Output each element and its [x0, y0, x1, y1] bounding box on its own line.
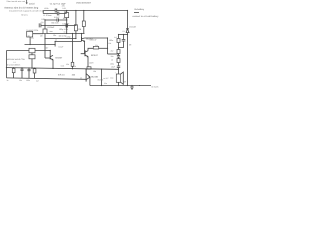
svg-text:1k: 1k — [7, 79, 9, 82]
svg-text:100R: 100R — [89, 61, 94, 64]
svg-text:0.1uF: 0.1uF — [59, 46, 65, 49]
svg-text:8R: 8R — [129, 44, 132, 47]
transistor Q4 — [85, 69, 87, 81]
wire vertical x55.1 — [54, 42, 56, 47]
capacitor C9 hang x29 — [28, 68, 31, 78]
wire rail1 +9V top rail — [43, 10, 127, 12]
transistor Q5 — [49, 56, 51, 60]
wire Q5 base — [45, 57, 50, 59]
ground GND1 — [130, 86, 134, 90]
svg-text:47p: 47p — [41, 21, 44, 24]
svg-text:0.01uF: 0.01uF — [48, 26, 55, 29]
svg-text:10u: 10u — [110, 77, 113, 80]
svg-text:10k: 10k — [93, 70, 96, 73]
wire Q4 emitter — [89, 77, 91, 86]
wire rail2 — [41, 25, 77, 27]
wire to chain — [108, 53, 119, 55]
svg-text:22k: 22k — [108, 42, 111, 45]
wire Q5 emitter — [52, 60, 54, 69]
wire rail3 mid — [7, 68, 119, 70]
svg-text:0.01: 0.01 — [61, 65, 65, 68]
resistor R5 chain — [118, 35, 120, 39]
svg-text:0.047uF: 0.047uF — [62, 22, 70, 25]
capacitor C8 hang x22 — [21, 68, 24, 78]
svg-text:100n: 100n — [26, 79, 30, 82]
svg-text:10uF: 10uF — [111, 65, 116, 68]
capacitor C7 branch x123.5 — [119, 35, 126, 48]
capacitor C10 series in y20 wire — [57, 18, 58, 21]
wire column x72.5 — [72, 34, 74, 63]
transistor Q1 — [81, 37, 83, 42]
svg-text:4k7: 4k7 — [45, 47, 48, 50]
battery terminal tick — [134, 12, 139, 14]
svg-text:0.047uF: 0.047uF — [90, 39, 98, 42]
svg-text:L2: L2 — [14, 61, 16, 64]
svg-text:40t: 40t — [40, 34, 43, 37]
svg-text:4u7: 4u7 — [36, 80, 39, 83]
capacitor C1 series in rail1 — [55, 9, 57, 13]
svg-text:BC547: BC547 — [91, 54, 98, 57]
resistor R2 column x76.5 — [75, 11, 77, 25]
svg-text:22n: 22n — [104, 82, 107, 85]
svg-text:220p: 220p — [67, 36, 71, 39]
svg-text:100p: 100p — [41, 18, 45, 21]
svg-text:10n: 10n — [72, 74, 76, 77]
svg-text:aerial: aerial — [29, 3, 35, 6]
variable capacitor VC1 section A — [29, 48, 35, 53]
svg-text:25k: 25k — [66, 63, 69, 66]
capacitor C4 at rail2 left end — [39, 23, 41, 27]
antenna arrow ANT1 — [26, 0, 28, 3]
svg-text:1N4148: 1N4148 — [129, 25, 136, 28]
svg-text:Antenna: wire 3 to 10 metres l: Antenna: wire 3 to 10 metres long — [4, 7, 39, 10]
resistor R9 hang x13.6 — [12, 68, 15, 72]
wire osc feed y20 — [45, 19, 67, 21]
svg-text:1n: 1n — [80, 76, 82, 79]
svg-text:60 turns 0.25mm: 60 turns 0.25mm — [6, 64, 21, 67]
wire Q2 emitter drop — [87, 57, 89, 67]
wire Q2 collector — [88, 48, 93, 51]
transistor Q2 — [84, 50, 86, 56]
wire branch y34.5 — [119, 34, 128, 36]
diode D1 — [126, 11, 129, 33]
svg-text:1k: 1k — [74, 65, 76, 68]
wire R4 to node x107.5 — [99, 47, 108, 49]
wire rail4 bottom — [90, 85, 151, 87]
variable capacitor VC1 section B — [29, 55, 35, 59]
wire tank feed y44.5 — [25, 44, 56, 46]
svg-text:10n: 10n — [19, 79, 22, 82]
resistor R8 on rail3 — [87, 67, 91, 69]
svg-text:TUNING COIL: TUNING COIL — [26, 29, 38, 32]
svg-text:100k: 100k — [63, 17, 67, 20]
wire Q1 collector — [85, 37, 108, 39]
svg-text:0.01: 0.01 — [62, 7, 66, 10]
svg-text:10n 470p: 10n 470p — [59, 34, 67, 37]
svg-text:60 turns: 60 turns — [21, 14, 28, 17]
resistor R10 hang x34.6 — [34, 67, 36, 70]
capacitor C3 series in rail2 — [66, 24, 68, 28]
svg-text:100p 415k: 100p 415k — [59, 28, 68, 31]
wire bias line y38.5 — [45, 38, 76, 40]
svg-text:100n: 100n — [109, 39, 113, 42]
wire AGC line — [7, 50, 51, 52]
svg-text:10n: 10n — [111, 55, 114, 58]
svg-text:+: + — [115, 72, 116, 75]
wire rail bottom-left — [7, 78, 86, 79]
capacitor C6 electrolytic — [117, 63, 120, 70]
resistor R3 column x84.5 — [83, 11, 85, 22]
resistor R4 — [93, 46, 98, 49]
svg-text:L2: L2 — [32, 37, 34, 40]
wire node W3 — [33, 33, 85, 35]
wire x101.5 drop — [101, 69, 103, 85]
wire left drop x6.5 — [6, 51, 8, 78]
svg-text:connect to a 9 volt battery: connect to a 9 volt battery — [132, 15, 159, 18]
wire base line y41.5 — [55, 41, 81, 43]
svg-text:10n: 10n — [53, 34, 56, 37]
svg-text:47k 1n: 47k 1n — [58, 74, 65, 77]
resistor R6 chain — [117, 50, 120, 54]
capacitor C5 chain — [117, 54, 120, 59]
svg-text:Short aerial wire ant: Short aerial wire ant — [7, 0, 26, 3]
wire Q1 emitter drop — [84, 41, 86, 53]
wire Q5 collector — [49, 51, 51, 56]
svg-text:BC558: BC558 — [98, 78, 104, 81]
svg-text:0v earth: 0v earth — [152, 85, 159, 88]
svg-text:22k: 22k — [95, 44, 98, 47]
svg-text:D1: D1 — [123, 30, 125, 33]
svg-text:trim: trim — [50, 30, 54, 33]
labels — [4, 0, 159, 88]
svg-text:MEDIUM WAVE COIL: MEDIUM WAVE COIL — [7, 58, 26, 61]
svg-text:415k: 415k — [44, 7, 48, 10]
svg-text:2k2: 2k2 — [111, 50, 114, 53]
svg-text:1n: 1n — [55, 39, 57, 42]
svg-text:1M: 1M — [78, 28, 81, 31]
speaker LS1 — [116, 74, 120, 82]
svg-text:3k9: 3k9 — [64, 10, 67, 13]
svg-text:8R: 8R — [124, 81, 127, 84]
svg-text:33k 0.05: 33k 0.05 — [51, 22, 58, 25]
inductor L1 coil box — [27, 31, 33, 37]
svg-text:1k: 1k — [111, 58, 113, 61]
trimmer capacitor CT1 column x45 — [44, 20, 46, 29]
resistor R1 column x65.5 — [66, 11, 68, 13]
capacitor C2 series in lead — [57, 12, 59, 16]
svg-text:insulated from supports at bot: insulated from supports at both ends — [9, 10, 44, 13]
svg-text:1N4148 BC557: 1N4148 BC557 — [76, 1, 92, 4]
svg-text:0.0047: 0.0047 — [54, 16, 60, 19]
svg-text:100u: 100u — [110, 63, 114, 66]
wire antenna lead — [43, 13, 66, 15]
svg-text:or 327: or 327 — [103, 77, 108, 80]
junction dots — [6, 10, 140, 86]
wire x107.5 drop — [107, 38, 109, 54]
wire joint x44.5 — [42, 11, 44, 14]
svg-text:4n7: 4n7 — [114, 36, 117, 39]
svg-text:9v battery: 9v battery — [135, 8, 146, 11]
svg-text:BC338: BC338 — [91, 75, 98, 78]
svg-text:L1 0.3mm: L1 0.3mm — [43, 14, 52, 17]
svg-text:BC557: BC557 — [56, 57, 63, 60]
resistor R7 chain — [117, 59, 120, 63]
wire right bus x127.5 — [127, 33, 129, 86]
